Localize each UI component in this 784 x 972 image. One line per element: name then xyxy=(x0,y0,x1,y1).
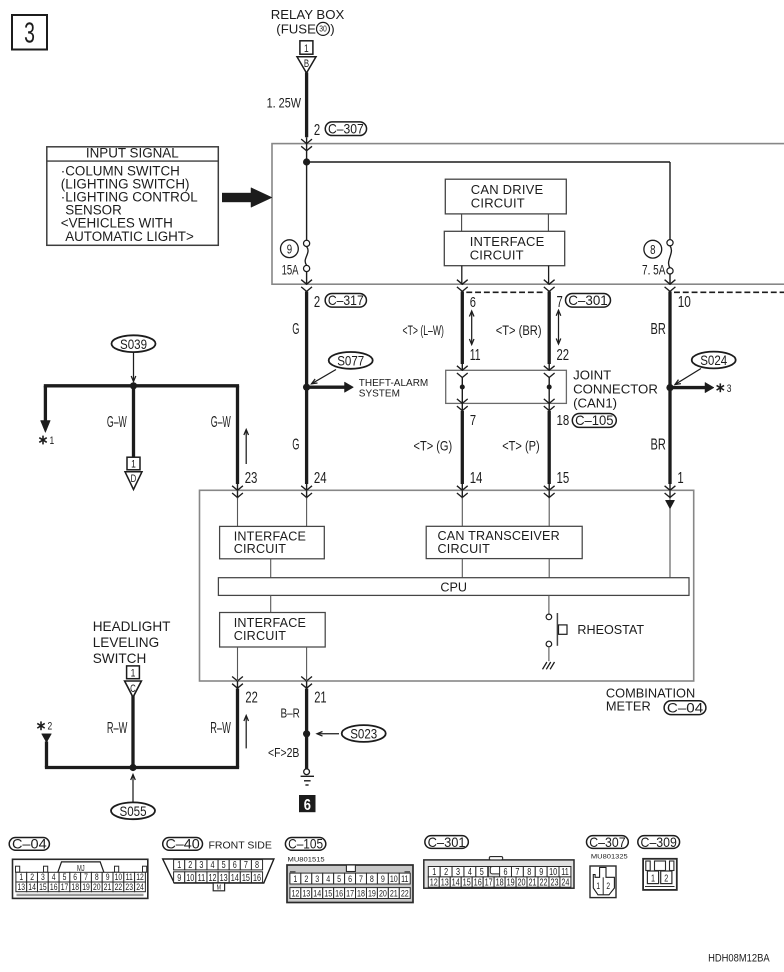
svg-text:1: 1 xyxy=(177,859,181,870)
svg-text:3: 3 xyxy=(727,383,732,396)
svg-text:S055: S055 xyxy=(120,803,147,819)
svg-text:2: 2 xyxy=(606,881,610,891)
svg-text:G–W: G–W xyxy=(107,414,127,431)
svg-text:2: 2 xyxy=(304,873,308,884)
svg-text:CIRCUIT: CIRCUIT xyxy=(471,196,525,211)
svg-text:B–R: B–R xyxy=(281,706,300,721)
svg-text:11: 11 xyxy=(198,872,206,883)
svg-text:10: 10 xyxy=(115,872,123,882)
svg-text:2: 2 xyxy=(48,721,53,734)
svg-text:2: 2 xyxy=(664,872,668,883)
svg-text:3: 3 xyxy=(41,872,45,882)
svg-text:9: 9 xyxy=(287,243,292,257)
svg-text:MU801515: MU801515 xyxy=(288,855,325,864)
svg-text:M: M xyxy=(217,884,221,892)
svg-text:9: 9 xyxy=(381,873,385,884)
svg-text:19: 19 xyxy=(82,882,90,892)
svg-text:21: 21 xyxy=(104,882,112,892)
svg-text:C–04: C–04 xyxy=(667,701,703,716)
svg-text:7: 7 xyxy=(84,872,88,882)
svg-text:20: 20 xyxy=(93,882,101,892)
svg-text:7: 7 xyxy=(359,873,363,884)
svg-text:7: 7 xyxy=(244,859,248,870)
svg-text:21: 21 xyxy=(528,876,536,887)
svg-text:4: 4 xyxy=(52,872,56,882)
svg-text:C–105: C–105 xyxy=(575,413,614,429)
svg-text:15: 15 xyxy=(39,882,47,892)
svg-text:16: 16 xyxy=(335,888,343,899)
svg-text:6: 6 xyxy=(304,797,311,814)
svg-text:23: 23 xyxy=(245,470,258,487)
svg-text:14: 14 xyxy=(470,470,483,487)
svg-text:5: 5 xyxy=(337,873,341,884)
svg-text:): ) xyxy=(330,21,334,36)
svg-text:8: 8 xyxy=(650,244,655,258)
svg-text:C–307: C–307 xyxy=(328,121,364,137)
svg-text:7: 7 xyxy=(470,411,476,428)
svg-text:C–40: C–40 xyxy=(165,837,199,853)
svg-text:17: 17 xyxy=(346,888,354,899)
svg-text:C–301: C–301 xyxy=(568,292,608,308)
svg-text:S039: S039 xyxy=(120,336,147,352)
svg-text:15A: 15A xyxy=(282,262,299,278)
svg-text:30: 30 xyxy=(319,24,327,34)
svg-text:16: 16 xyxy=(50,882,58,892)
svg-text:19: 19 xyxy=(368,888,376,899)
svg-text:10: 10 xyxy=(390,873,398,884)
svg-text:15: 15 xyxy=(557,470,570,487)
svg-text:RELAY BOX: RELAY BOX xyxy=(271,7,345,22)
svg-text:3: 3 xyxy=(315,873,319,884)
svg-text:2: 2 xyxy=(30,872,34,882)
svg-text:14: 14 xyxy=(28,882,36,892)
svg-text:CONNECTOR: CONNECTOR xyxy=(573,382,658,397)
svg-text:8: 8 xyxy=(370,873,374,884)
svg-text:3: 3 xyxy=(199,859,203,870)
svg-text:1: 1 xyxy=(293,873,297,884)
svg-text:16: 16 xyxy=(474,876,482,887)
svg-text:JOINT: JOINT xyxy=(573,368,611,383)
svg-text:(FUSE: (FUSE xyxy=(276,21,316,36)
svg-text:CIRCUIT: CIRCUIT xyxy=(438,542,491,556)
svg-text:1. 25W: 1. 25W xyxy=(267,95,302,111)
svg-text:2: 2 xyxy=(314,293,320,310)
svg-text:22: 22 xyxy=(557,346,570,363)
svg-text:5: 5 xyxy=(222,859,226,870)
svg-text:D: D xyxy=(131,473,137,484)
svg-text:14: 14 xyxy=(452,876,460,887)
svg-text:C–309: C–309 xyxy=(641,834,677,850)
svg-text:CPU: CPU xyxy=(440,581,467,595)
svg-text:C–105: C–105 xyxy=(288,836,323,852)
svg-text:15: 15 xyxy=(463,876,471,887)
svg-text:16: 16 xyxy=(253,872,261,883)
svg-text:4: 4 xyxy=(326,873,330,884)
svg-text:C–307: C–307 xyxy=(589,834,625,850)
svg-text:MU801325: MU801325 xyxy=(591,852,628,861)
svg-text:(CAN1): (CAN1) xyxy=(573,396,617,411)
svg-text:C: C xyxy=(130,683,136,694)
svg-text:<F>2B: <F>2B xyxy=(268,745,299,761)
svg-text:8: 8 xyxy=(95,872,99,882)
svg-text:22: 22 xyxy=(245,689,257,706)
svg-text:FRONT SIDE: FRONT SIDE xyxy=(209,839,272,851)
svg-text:1: 1 xyxy=(677,469,683,486)
svg-text:4: 4 xyxy=(210,859,214,870)
svg-text:BR: BR xyxy=(651,436,667,453)
svg-text:9: 9 xyxy=(106,872,110,882)
svg-text:INTERFACE: INTERFACE xyxy=(234,529,306,543)
svg-text:1: 1 xyxy=(131,459,136,472)
svg-text:6: 6 xyxy=(348,873,352,884)
svg-text:24: 24 xyxy=(561,876,569,887)
svg-text:23: 23 xyxy=(550,876,558,887)
svg-text:CIRCUIT: CIRCUIT xyxy=(234,629,287,643)
svg-text:S024: S024 xyxy=(700,352,727,368)
svg-text:2: 2 xyxy=(188,859,192,870)
svg-text:18: 18 xyxy=(357,888,365,899)
svg-text:7. 5A: 7. 5A xyxy=(642,262,666,278)
svg-text:METER: METER xyxy=(606,699,651,714)
svg-text:R–W: R–W xyxy=(210,718,231,736)
svg-text:15: 15 xyxy=(242,872,250,883)
svg-text:12: 12 xyxy=(430,876,438,887)
svg-text:20: 20 xyxy=(517,876,525,887)
svg-text:11: 11 xyxy=(126,872,133,882)
svg-text:21: 21 xyxy=(390,888,398,899)
svg-text:14: 14 xyxy=(313,888,321,899)
svg-text:INTERFACE: INTERFACE xyxy=(234,616,306,630)
svg-text:8: 8 xyxy=(255,859,259,870)
svg-text:S023: S023 xyxy=(350,726,377,742)
svg-text:15: 15 xyxy=(324,888,332,899)
svg-text:SYSTEM: SYSTEM xyxy=(359,388,400,399)
svg-text:10: 10 xyxy=(678,293,692,310)
svg-text:1: 1 xyxy=(50,435,55,448)
svg-text:17: 17 xyxy=(485,876,493,887)
svg-text:SWITCH: SWITCH xyxy=(93,651,147,666)
svg-text:22: 22 xyxy=(115,882,123,892)
svg-text:17: 17 xyxy=(61,882,69,892)
svg-text:9: 9 xyxy=(177,872,181,883)
svg-text:1: 1 xyxy=(596,881,600,891)
svg-text:2: 2 xyxy=(314,121,320,138)
svg-text:23: 23 xyxy=(125,882,133,892)
svg-text:18: 18 xyxy=(496,876,504,887)
svg-text:CAN TRANSCEIVER: CAN TRANSCEIVER xyxy=(438,529,560,543)
svg-text:13: 13 xyxy=(302,888,310,899)
svg-text:1: 1 xyxy=(131,667,136,680)
svg-text:1: 1 xyxy=(304,43,309,56)
svg-text:13: 13 xyxy=(220,872,228,883)
svg-text:1: 1 xyxy=(19,872,23,882)
svg-text:CIRCUIT: CIRCUIT xyxy=(234,542,287,556)
svg-text:20: 20 xyxy=(379,888,387,899)
svg-text:22: 22 xyxy=(539,876,547,887)
svg-text:6: 6 xyxy=(470,293,476,310)
svg-text:11: 11 xyxy=(401,873,409,884)
svg-text:C–301: C–301 xyxy=(428,834,466,850)
svg-text:INPUT SIGNAL: INPUT SIGNAL xyxy=(86,146,179,161)
svg-text:CIRCUIT: CIRCUIT xyxy=(470,248,524,263)
svg-text:21: 21 xyxy=(314,689,326,706)
svg-text:<T> (L–W): <T> (L–W) xyxy=(403,323,444,339)
svg-text:LEVELING: LEVELING xyxy=(93,635,160,650)
svg-text:24: 24 xyxy=(136,882,144,892)
svg-text:<T> (BR): <T> (BR) xyxy=(496,322,542,339)
svg-text:RHEOSTAT: RHEOSTAT xyxy=(577,623,644,637)
svg-text:C–317: C–317 xyxy=(328,292,364,308)
svg-text:10: 10 xyxy=(186,872,194,883)
svg-text:14: 14 xyxy=(231,872,239,883)
svg-text:G: G xyxy=(292,321,299,338)
svg-text:13: 13 xyxy=(441,876,449,887)
svg-text:6: 6 xyxy=(73,872,77,882)
svg-text:24: 24 xyxy=(314,470,327,487)
svg-text:G–W: G–W xyxy=(211,414,231,431)
svg-text:18: 18 xyxy=(71,882,79,892)
svg-text:3: 3 xyxy=(24,18,35,50)
svg-text:22: 22 xyxy=(401,888,409,899)
svg-text:1: 1 xyxy=(651,872,655,883)
svg-text:S077: S077 xyxy=(337,352,364,368)
svg-text:7: 7 xyxy=(557,293,563,310)
svg-text:B: B xyxy=(304,58,309,69)
svg-text:G: G xyxy=(292,436,299,453)
svg-text:5: 5 xyxy=(63,872,67,882)
svg-text:C–04: C–04 xyxy=(12,837,47,853)
svg-text:<T> (P): <T> (P) xyxy=(502,437,540,454)
svg-text:12: 12 xyxy=(208,872,216,883)
svg-text:6: 6 xyxy=(233,859,237,870)
svg-text:19: 19 xyxy=(507,876,515,887)
svg-text:R–W: R–W xyxy=(107,718,128,736)
svg-text:12: 12 xyxy=(291,888,299,899)
svg-text:AUTOMATIC LIGHT>: AUTOMATIC LIGHT> xyxy=(65,229,194,244)
svg-text:<T> (G): <T> (G) xyxy=(414,437,453,454)
svg-text:BR: BR xyxy=(651,320,667,337)
svg-text:11: 11 xyxy=(470,346,481,364)
svg-text:HDH08M12BA: HDH08M12BA xyxy=(708,953,770,965)
svg-text:12: 12 xyxy=(136,872,144,882)
svg-text:13: 13 xyxy=(18,882,26,892)
svg-text:HEADLIGHT: HEADLIGHT xyxy=(93,619,171,634)
svg-text:18: 18 xyxy=(557,411,570,428)
